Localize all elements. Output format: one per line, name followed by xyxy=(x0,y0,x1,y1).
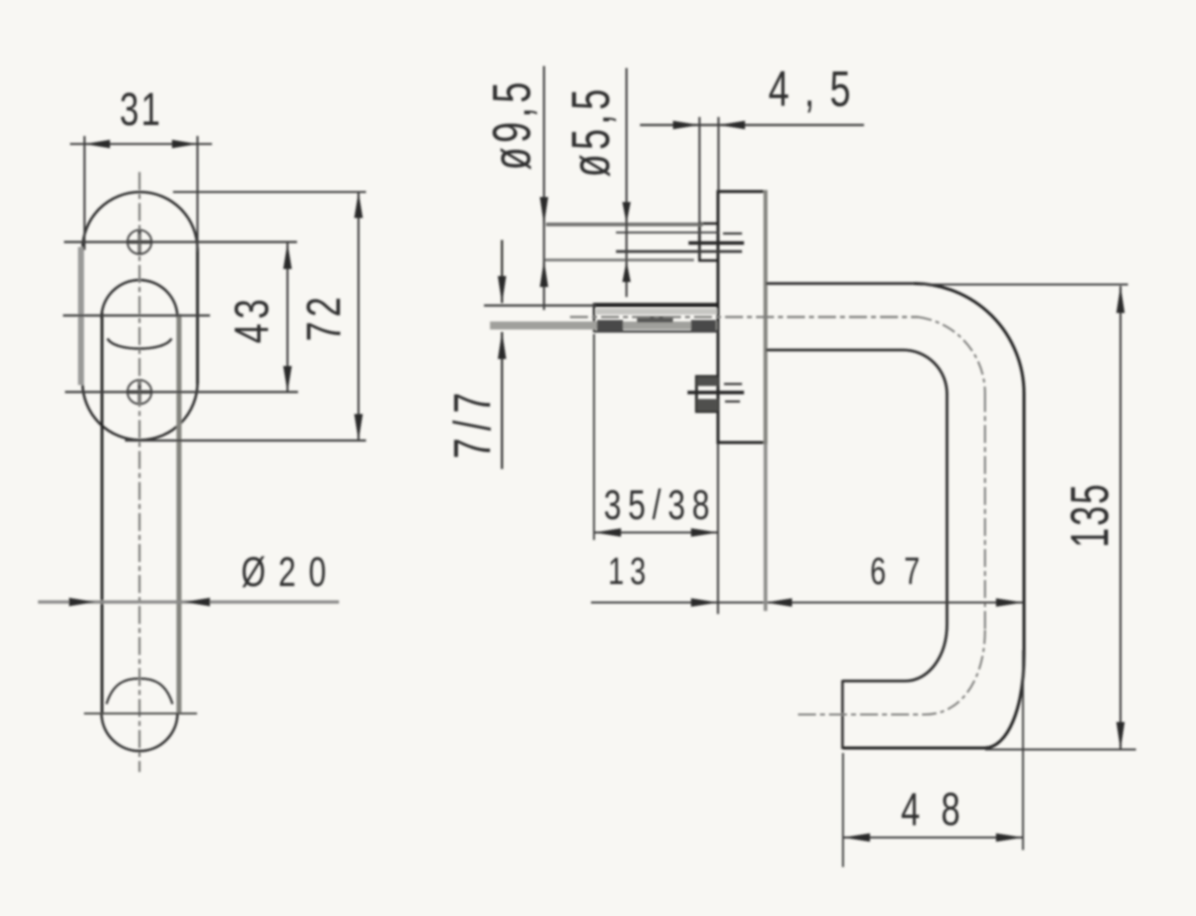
svg-text:135: 135 xyxy=(1060,482,1120,547)
svg-text:Ø20: Ø20 xyxy=(241,548,339,596)
dim d20 arrow left xyxy=(69,598,95,607)
grip right side (grey) xyxy=(177,314,182,714)
35/38 ext xyxy=(593,334,595,540)
svg-text:ø9,5: ø9,5 xyxy=(481,78,541,170)
horizontal centerline grip bottom xyxy=(84,713,197,715)
7/7 arrow down xyxy=(498,276,506,304)
neck bottom line xyxy=(766,349,903,352)
neck inner bend arc xyxy=(903,350,947,394)
dim 135 line xyxy=(1119,286,1121,750)
dim 72 arrow bottom xyxy=(354,414,363,441)
dim 4,5 line xyxy=(640,124,864,126)
135 ext top xyxy=(920,284,1128,286)
48 arrow left xyxy=(843,833,870,842)
neck top line xyxy=(766,282,914,285)
centerline bend arc xyxy=(918,317,985,394)
svg-text:31: 31 xyxy=(120,83,163,135)
vertical centerline front view xyxy=(138,172,140,772)
svg-text:7/7: 7/7 xyxy=(443,385,502,459)
screw symbol bottom xyxy=(127,379,153,405)
horizontal centerline bottom screw xyxy=(65,391,298,393)
horizontal centerline top screw xyxy=(64,241,297,243)
48 ext left xyxy=(842,753,844,867)
ext grip edge down xyxy=(1022,650,1024,850)
dim 31 ext right xyxy=(196,136,198,252)
dim 31 line xyxy=(70,143,212,145)
plate top arc xyxy=(83,192,198,250)
bottom screw boss xyxy=(697,377,719,412)
grip centerline vertical xyxy=(984,394,986,630)
dim 4,5 ext left xyxy=(698,117,700,224)
arrow at grip pointing right xyxy=(996,598,1023,607)
plate right edge (grey) xyxy=(764,190,768,444)
screw symbol top xyxy=(127,229,153,255)
ext plate left down xyxy=(717,444,719,614)
top screw thread mark upper xyxy=(723,232,742,234)
plate side rect xyxy=(718,192,766,443)
spindle top edge xyxy=(594,303,719,307)
dim 43 arrow top xyxy=(283,243,292,269)
spindle left end xyxy=(593,303,595,332)
48 arrow right xyxy=(996,833,1023,842)
d5,5 arrow up xyxy=(622,261,630,282)
dim 48 line xyxy=(843,836,1023,838)
ext plate right down (grey) xyxy=(764,444,768,611)
dim 72 ext top xyxy=(173,191,366,193)
spindle center dark dash xyxy=(637,316,673,323)
dim d20 arrow right xyxy=(184,598,210,607)
spindle bottom edge xyxy=(594,330,719,332)
plate left side (grey band) xyxy=(78,247,84,385)
d9.5 ext bottom xyxy=(545,259,694,262)
hook outer bend xyxy=(984,654,1024,748)
top screw line lower xyxy=(616,250,742,253)
svg-text:13: 13 xyxy=(608,551,652,593)
bottom screw axis dark xyxy=(688,391,745,395)
dim 43 arrow bottom xyxy=(283,366,292,392)
grip end transition arc xyxy=(107,679,173,705)
grip left side xyxy=(101,313,104,714)
hook centerline bend xyxy=(925,630,985,715)
135 arrow bottom xyxy=(1116,722,1124,750)
dim d20 line xyxy=(38,600,339,603)
grip top cap arc xyxy=(102,280,178,318)
arrow at plate left pointing right xyxy=(691,598,718,607)
d9.5 ext top xyxy=(546,223,703,227)
35/38 arrow left xyxy=(594,528,621,537)
bottom boss top band xyxy=(697,377,718,386)
grip right edge side view xyxy=(1023,393,1026,655)
horizontal centerline neck xyxy=(63,314,210,316)
d9,5 arrow up xyxy=(540,260,548,287)
dim 13/67 line xyxy=(591,601,1023,603)
dim 72 line xyxy=(357,192,359,441)
spindle dark block left xyxy=(597,320,623,331)
7/7 dim line lower xyxy=(501,332,503,469)
hook top edge xyxy=(843,680,906,683)
7/7 dim line upper xyxy=(501,240,503,303)
svg-text:4,5: 4,5 xyxy=(768,62,865,117)
d9,5 dim line xyxy=(543,66,545,310)
dim 4,5 arrow right xyxy=(719,121,746,130)
svg-text:ø5,5: ø5,5 xyxy=(560,85,620,177)
dim 72 ext bottom xyxy=(125,439,366,441)
spindle/77 ext grey band xyxy=(490,322,717,330)
hook centerline horizontal xyxy=(798,714,925,716)
grip bottom cap xyxy=(102,713,178,751)
bottom screw thread mark lower xyxy=(725,400,740,402)
svg-text:72: 72 xyxy=(297,292,350,341)
plate bottom arc xyxy=(83,383,198,440)
grip left edge side view xyxy=(946,394,949,625)
dim 35/38 line xyxy=(594,531,718,533)
bottom boss bottom band xyxy=(697,399,718,411)
arrow at plate right pointing left xyxy=(766,598,793,607)
top screw boss xyxy=(700,224,719,261)
svg-text:35/38: 35/38 xyxy=(604,481,717,529)
d5,5 arrow down xyxy=(622,202,630,223)
spindle interior light band xyxy=(596,309,717,315)
hook bottom edge xyxy=(843,747,985,750)
plate right side xyxy=(196,248,199,384)
dim 72 arrow top xyxy=(354,192,363,218)
side view horizontal centerline xyxy=(570,316,918,318)
top screw line upper xyxy=(616,232,718,234)
dim 31 arrow right xyxy=(172,140,198,149)
dim 31 arrow left xyxy=(85,140,111,149)
dim 43 line xyxy=(286,243,288,392)
top screw axis dark xyxy=(689,241,745,245)
7/7 arrow up xyxy=(498,332,506,360)
d9,5 arrow down xyxy=(540,197,548,225)
bottom screw thread mark upper xyxy=(724,383,742,385)
svg-text:43: 43 xyxy=(225,294,278,343)
dim 31 ext left xyxy=(83,136,85,250)
d5,5 dim line xyxy=(625,68,627,297)
135 arrow top xyxy=(1116,286,1124,313)
neck transition arc xyxy=(108,339,172,349)
35/38 arrow right xyxy=(691,528,718,537)
dim 4,5 arrow left xyxy=(673,121,700,130)
hook inner bend xyxy=(905,624,947,681)
135 ext bottom xyxy=(985,749,1136,751)
hook end cap xyxy=(841,680,844,749)
neck outer bend arc xyxy=(914,284,1024,394)
svg-text:67: 67 xyxy=(870,551,938,593)
svg-text:48: 48 xyxy=(901,783,981,835)
dim 4,5 ext right xyxy=(717,117,719,191)
spindle dark block right xyxy=(691,320,716,331)
7/7 ext top xyxy=(484,304,596,306)
